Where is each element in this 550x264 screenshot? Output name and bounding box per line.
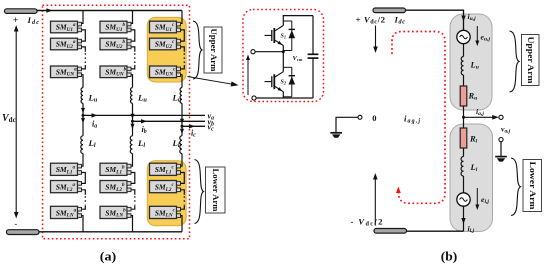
wire top rail to capacitor [312, 16, 314, 54]
node midpoint (submodule) [282, 50, 285, 53]
wire junction to Ll^c [181, 126, 183, 136]
svg-text:SMU2c: SMU2c [155, 40, 175, 50]
submodule SM_L2^b [100, 181, 127, 193]
wire source to bottom rail (b) [463, 206, 465, 231]
brace upper arm (a) [193, 21, 202, 79]
submodule SM_L1^a [51, 163, 78, 175]
terminal tabs SM_UN^c [177, 67, 181, 76]
wire node to lower arm (b) [463, 117, 465, 128]
dots lower arm b [134, 196, 136, 205]
arrow Idc on top bus [46, 8, 52, 12]
wire bus drop to SM_U1^c [181, 11, 183, 24]
arrow e_u,j [475, 26, 479, 46]
wire Lu^c to junction [181, 103, 183, 126]
wire Lu^a to junction [82, 103, 84, 115]
wire SM_L1^a to SM_L2^a [82, 173, 86, 184]
wire SM_U2^a down (to dots) [82, 47, 86, 52]
ac source e_l,j (lower) [457, 193, 470, 206]
ground symbol at v terminal [495, 157, 507, 162]
node junction (b) [462, 116, 465, 119]
submodule SM_L2^a [51, 181, 78, 193]
positive dc bus bar (a) [5, 9, 38, 14]
ground symbol at 0 node [330, 133, 342, 138]
lower arm current arrow c [180, 129, 184, 135]
arrow e_l,j [475, 188, 479, 210]
wire Ll^b to SM_L1^b [131, 154, 133, 167]
transistor S2 (IGBT) [265, 72, 284, 92]
terminal tabs SM_U2^a [78, 39, 82, 48]
submodule SM_LN^c [150, 206, 177, 218]
node phase c output [181, 125, 184, 128]
node phase b output [131, 120, 134, 123]
wire SM_L1^c to SM_L2^c [181, 173, 185, 184]
submodule SM_U2^c [150, 38, 177, 50]
terminal tabs SM_L2^b [127, 182, 131, 192]
wire SM_L2^c down (to dots) [181, 190, 185, 195]
inductor Ll phase a [81, 136, 83, 154]
gray rounded box lower arm (b) [450, 124, 493, 232]
wire upper terminal to midpoint [255, 51, 283, 53]
svg-text:SMU2a: SMU2a [56, 40, 76, 50]
node phase a output [82, 114, 85, 117]
wire SM_L1^b to SM_L2^b [131, 173, 135, 184]
submodule SM_L1^b [100, 163, 127, 175]
upper arm current arrow b [131, 114, 135, 120]
svg-text:Lower Arm: Lower Arm [528, 162, 538, 211]
wire top dc bus (a) [37, 10, 182, 12]
svg-text:ic: ic [191, 128, 196, 138]
inductor Ll phase b [130, 136, 132, 154]
arrow i_l,j [461, 218, 465, 224]
terminal tabs SM_UN^b [127, 67, 131, 76]
upper arm current arrow c [180, 119, 184, 125]
dots upper arm c [183, 53, 185, 64]
terminal tabs SM_U2^b [127, 39, 131, 48]
svg-text:- Vdc/2: - Vdc/2 [351, 217, 384, 228]
wire SM_UN^c to inductor Lu^c [181, 75, 183, 88]
svg-text:SMU2b: SMU2b [105, 40, 125, 50]
submodule SM_U1^c [150, 21, 177, 33]
inductor Lu (b) [461, 57, 463, 75]
terminal tabs SM_L2^a [78, 182, 82, 192]
wire capacitor to bottom rail [312, 58, 314, 98]
label box Lower Arm (a) [206, 167, 226, 213]
wire SM_U2^c down (to dots) [181, 47, 185, 52]
wire output phase a [83, 114, 205, 116]
wire dots to SM_LN^c [181, 205, 185, 209]
svg-text:SMUNb: SMUNb [105, 67, 126, 77]
terminal tabs SM_L1^b [127, 164, 131, 174]
svg-text:SMLNc: SMLNc [155, 208, 176, 218]
svg-text:Idc: Idc [27, 15, 40, 26]
wire 0 node to ground [336, 117, 358, 132]
inductor Ll phase c [180, 136, 182, 154]
svg-text:iag,j: iag,j [404, 114, 420, 125]
wire SM_LN^a to bottom bus [82, 216, 84, 232]
lower arm current arrow a [81, 118, 85, 124]
wire source to Lu (b) [463, 44, 465, 57]
svg-text:Upper Arm: Upper Arm [526, 37, 536, 85]
capacitor Vcm [308, 54, 319, 58]
svg-text:SMU1a: SMU1a [56, 23, 76, 33]
arrow i_u,j [461, 16, 465, 22]
wire SM_UN^b to inductor Lu^b [131, 75, 133, 88]
dots lower arm c [183, 196, 185, 205]
svg-text:va,j: va,j [501, 125, 511, 135]
terminal node output (b) [499, 115, 503, 119]
svg-text:-: - [15, 220, 18, 229]
diode D2 [283, 67, 295, 97]
svg-text:(a): (a) [100, 250, 117, 264]
wire bus drop to SM_U1^b [131, 11, 133, 24]
wire Ll^c to SM_L1^c [181, 154, 183, 167]
svg-text:SMLNa: SMLNa [56, 208, 77, 218]
wire dots to SM_UN^a [82, 65, 86, 69]
wire junction to Ll^a [82, 115, 84, 135]
inductor Lu phase a [81, 88, 83, 104]
inductor Lu phase b [131, 88, 133, 104]
inductor Ll (b) [461, 157, 463, 177]
submodule SM_U1^a [51, 21, 78, 33]
svg-text:Lu: Lu [88, 93, 98, 104]
submodule SM_U2^a [51, 38, 78, 50]
terminal tabs SM_LN^a [78, 207, 82, 217]
svg-text:Lu: Lu [137, 93, 147, 104]
wire SM_UN^a to inductor Lu^a [82, 75, 84, 88]
terminal node lower (submodule) [252, 96, 256, 100]
terminal tabs SM_L1^c [177, 164, 181, 174]
wire SM_U1^c to SM_U2^c [181, 30, 185, 41]
submodule SM_LN^a [51, 206, 78, 218]
svg-text:ib: ib [142, 125, 147, 135]
arrow circulating current [396, 187, 401, 194]
wire lower terminal to bottom rail [256, 97, 313, 99]
svg-text:SMU1b: SMU1b [105, 23, 125, 33]
arrow i_b [141, 119, 147, 123]
terminal tabs SM_L2^c [177, 182, 181, 192]
svg-text:Vdc: Vdc [2, 113, 16, 124]
lower arm current arrow b [131, 124, 135, 130]
terminal tabs SM_U1^a [78, 22, 82, 31]
wire SM_LN^c to bottom bus [181, 216, 183, 232]
svg-text:SMUNc: SMUNc [155, 67, 176, 77]
arrow i_c [189, 124, 195, 128]
wire dots to SM_LN^a [82, 205, 86, 209]
wire S2 collector to midpoint [282, 52, 284, 72]
brace lower arm (a) [195, 160, 204, 224]
svg-text:SMU1c: SMU1c [155, 23, 175, 33]
Vdc measurement arrow [14, 25, 19, 219]
label box Upper Arm (b) [522, 35, 540, 86]
dots upper arm b [134, 53, 136, 64]
wire Ll^a to SM_L1^a [82, 154, 84, 167]
inductor Lu phase c [180, 88, 182, 104]
wire S1 emitter to midpoint [282, 46, 284, 52]
label box Lower Arm (b) [523, 160, 542, 212]
wire junction to Ll^b [132, 121, 134, 136]
wire SM_U1^b to SM_U2^b [131, 30, 135, 41]
terminal tabs SM_UN^a [78, 67, 82, 76]
wire Ru to node v [463, 106, 465, 117]
wire dots to SM_LN^b [131, 205, 135, 209]
circulating current path i_ag,j (red dashed) [392, 32, 445, 204]
svg-text:+: + [13, 15, 18, 25]
submodule SM_L1^c [150, 163, 177, 175]
terminal tabs SM_LN^c [177, 207, 181, 217]
svg-text:Vcm: Vcm [293, 55, 303, 62]
negative dc bar (b) [374, 229, 407, 234]
submodule voltage arrow [246, 55, 250, 96]
red dashed boundary of MMC converter (a) [43, 5, 190, 239]
svg-text:SMLNb: SMLNb [105, 208, 126, 218]
dots lower arm a [84, 196, 86, 205]
wire dots to SM_UN^b [131, 65, 135, 69]
svg-text:S1: S1 [281, 34, 287, 40]
arrow -Vdc/2 up [373, 173, 378, 226]
svg-text:(b): (b) [441, 250, 458, 264]
yellow highlight box lower arm phase c [147, 161, 186, 226]
wire bottom rail (b) [406, 230, 464, 232]
wire Lu^b to junction [132, 103, 134, 121]
terminal tabs SM_U2^c [177, 39, 181, 48]
wire v terminal to ground [500, 142, 502, 156]
svg-text:ia: ia [92, 119, 97, 129]
label box Upper Arm (a) [204, 27, 222, 73]
diode D1 [283, 21, 295, 51]
wire top rail (b) [406, 10, 464, 30]
upper arm current arrow a [81, 108, 85, 114]
wire Lu to Ru [463, 75, 465, 86]
svg-text:Lower Arm: Lower Arm [211, 168, 221, 212]
terminal node v ground (b) [499, 138, 503, 142]
arrow +Vdc/2 down [373, 26, 378, 54]
gray rounded box upper arm (b) [450, 14, 492, 110]
wire output phase b [133, 120, 206, 122]
svg-text:+ Vdc/2: + Vdc/2 [356, 15, 386, 26]
dots upper arm a [84, 53, 86, 64]
brace lower arm (b) [511, 158, 521, 216]
wire bus drop to SM_U1^a [82, 11, 84, 24]
svg-text:Ll: Ll [172, 138, 180, 149]
svg-text:Ll: Ll [137, 138, 145, 149]
submodule SM_LN^b [100, 206, 127, 218]
svg-text:SMUNa: SMUNa [56, 67, 77, 77]
yellow highlight box upper arm phase c [147, 17, 186, 82]
svg-text:S2: S2 [281, 80, 287, 86]
wire output arrow i_a,j [464, 115, 499, 120]
wire bottom dc bus (a) [39, 231, 182, 233]
submodule SM_UN^c [150, 66, 177, 78]
red dashed boundary of submodule detail [243, 10, 324, 102]
wire SM_U1^a to SM_U2^a [82, 30, 86, 41]
terminal tabs SM_LN^b [127, 207, 131, 217]
wire S2 emitter to bottom rail [282, 92, 284, 98]
negative dc bus bar (a) [7, 230, 40, 235]
svg-text:Ll: Ll [88, 138, 96, 149]
svg-text:Idc: Idc [394, 15, 406, 26]
wire Ll to source (b) [463, 176, 465, 193]
node 0 reference [358, 115, 362, 119]
arrow from SM_UN^c to submodule detail [188, 77, 239, 87]
wire dots to SM_UN^c [181, 65, 185, 69]
wire Rl to Ll [463, 148, 465, 157]
terminal tabs SM_U1^b [127, 22, 131, 31]
submodule SM_U2^b [100, 38, 127, 50]
submodule SM_UN^b [100, 66, 127, 78]
wire SM_LN^b to bottom bus [131, 216, 133, 232]
resistor Rl [460, 128, 467, 148]
transistor S1 (IGBT) [265, 26, 284, 46]
brace upper arm (b) [510, 31, 520, 92]
svg-text:0: 0 [372, 113, 376, 123]
submodule SM_L2^c [150, 181, 177, 193]
svg-text:Upper Arm: Upper Arm [209, 29, 219, 73]
terminal tabs SM_L1^a [78, 164, 82, 174]
wire SM_L2^a down (to dots) [82, 190, 86, 195]
wire SM_L2^b down (to dots) [131, 190, 135, 195]
arrow i_a [92, 113, 98, 117]
resistor Ru [460, 86, 467, 106]
terminal tabs SM_U1^c [177, 22, 181, 31]
positive dc bar (b) [373, 8, 406, 13]
submodule SM_UN^a [51, 66, 78, 78]
wire output phase c [182, 125, 205, 127]
terminal node upper (submodule) [251, 50, 255, 54]
ac source e_u,j (upper) [457, 30, 470, 43]
submodule SM_U1^b [100, 21, 127, 33]
wire S1 collector to top rail [283, 16, 313, 26]
wire SM_U2^b down (to dots) [131, 47, 135, 52]
